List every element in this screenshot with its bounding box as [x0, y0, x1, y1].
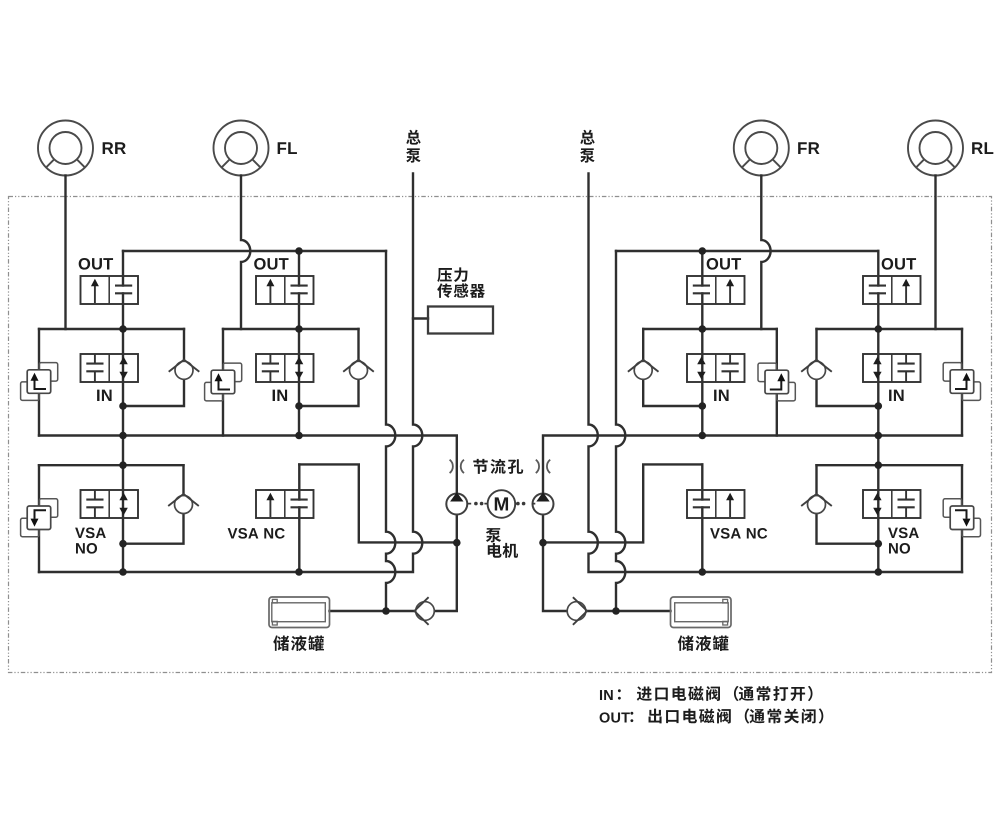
wire brake line RL x878: [877, 329, 879, 572]
junction node: [875, 568, 883, 576]
check valve FR circuit: [628, 360, 659, 380]
junction node: [875, 432, 883, 440]
pressure sensor box: [428, 307, 493, 334]
junction node: [295, 325, 303, 333]
check valve RL circuit: [801, 360, 832, 380]
junction node: [875, 461, 883, 469]
relief valve FR circuit: [758, 363, 795, 401]
solenoid valve OUT RR (NC): [81, 276, 139, 304]
label master-cylinder (zong) right: [580, 130, 594, 145]
wire RR relief branch: [38, 329, 40, 436]
label IN RL: [889, 390, 903, 401]
label pump motor (beng): [486, 528, 501, 542]
label OUT RR: [79, 258, 113, 270]
wire OUT rail right: [616, 250, 878, 252]
wire FL wheel to manifold with crossover hop: [241, 176, 250, 330]
junction node: [699, 402, 707, 410]
wire RL OUT valve line: [877, 251, 879, 329]
legend line 2 OUT: [600, 712, 630, 722]
solenoid valve IN RR (NO): [81, 354, 139, 382]
wire brake line RR x123: [122, 329, 124, 572]
wire OUT rail left: [123, 250, 386, 252]
label OUT FL: [254, 258, 288, 270]
solenoid valve OUT FR (NC): [687, 276, 745, 304]
junction node: [295, 402, 303, 410]
check valve VSA right: [801, 494, 832, 514]
junction node: [119, 540, 127, 548]
wire FR check branch: [643, 329, 702, 406]
reservoir left: [269, 597, 330, 628]
junction node: [699, 247, 707, 255]
label VSA NO right: [888, 528, 919, 539]
reservoir right: [671, 597, 732, 628]
wire FR manifold rail: [643, 328, 777, 330]
legend line 1 IN: [600, 690, 613, 700]
solenoid valve IN RL (NO): [863, 354, 921, 382]
wire pressure sensor stub: [413, 317, 428, 319]
wheel FL: [214, 121, 269, 176]
wire FR wheel to manifold with crossover hop: [761, 176, 770, 330]
junction node: [699, 568, 707, 576]
relief valve FL circuit: [205, 363, 242, 401]
wire RL manifold rail: [817, 328, 963, 330]
junction node: [119, 402, 127, 410]
wire FR relief branch: [776, 329, 778, 436]
wire master cylinder line left x413 down to VSA rail: [39, 174, 422, 573]
junction node: [119, 461, 127, 469]
label reservoir left: [273, 635, 324, 651]
solenoid valve OUT FL (NC): [256, 276, 314, 304]
junction node: [539, 539, 547, 547]
wire VSA NC right to pump suction: [543, 464, 702, 542]
relief valve VSA right: [943, 499, 980, 537]
wire VSA NC valve line right: [701, 464, 703, 572]
junction node: [875, 540, 883, 548]
label VSA NC right: [710, 528, 767, 539]
solenoid valve IN FL (NO): [256, 354, 314, 382]
pump right: [533, 492, 554, 514]
wire mid rail left to pump inlet: [39, 436, 457, 494]
check valve reservoir right: [567, 597, 587, 625]
wire RR OUT valve line: [122, 251, 124, 329]
solenoid valve IN FR (NO): [687, 354, 745, 382]
label OUT FR: [707, 258, 741, 270]
wheel RL: [908, 121, 963, 176]
wire pump right outlet to reservoir: [543, 515, 671, 612]
junction node: [119, 432, 127, 440]
wire RL check branch: [817, 329, 879, 406]
wire FR OUT valve line: [701, 251, 703, 329]
junction node: [119, 568, 127, 576]
relief valve RR circuit: [21, 363, 58, 401]
solenoid valve OUT RL (NC): [863, 276, 921, 304]
label IN FL: [273, 390, 287, 401]
wire VSA NO relief branch left: [38, 465, 40, 572]
wire VSA NO rail left: [39, 464, 184, 466]
relief valve VSA left: [21, 499, 58, 537]
wire low-pressure return left x386: [386, 251, 395, 611]
label IN FR: [714, 390, 728, 401]
wire brake line FR x702: [701, 329, 703, 436]
junction node: [453, 539, 461, 547]
orifice left: [450, 460, 464, 473]
wire RL relief branch: [961, 329, 963, 436]
wire RR wheel to manifold: [64, 176, 66, 330]
check valve VSA left: [168, 494, 199, 514]
wire VSA NO rail right: [817, 464, 963, 466]
label master-cylinder (zong) left: [406, 130, 420, 145]
pump-motor shaft dots: [467, 503, 535, 505]
junction node: [295, 432, 303, 440]
pump left: [446, 492, 467, 514]
wire RL wheel to manifold: [934, 176, 936, 330]
junction node: [875, 325, 883, 333]
junction node: [382, 607, 390, 615]
junction node: [612, 607, 620, 615]
dashed border of VSA modulator unit: [9, 197, 992, 673]
wire RR manifold rail: [39, 328, 184, 330]
label IN RR: [97, 390, 111, 401]
wire FL check branch: [299, 329, 359, 406]
junction node: [699, 432, 707, 440]
junction node: [295, 247, 303, 255]
wire FL OUT valve line: [298, 251, 300, 329]
wire master cylinder line right x588 down to VSA rail: [589, 174, 963, 573]
junction node: [875, 402, 883, 410]
wire FL relief branch: [222, 329, 224, 436]
wire brake line FL x299: [298, 329, 300, 436]
relief valve RL circuit: [943, 363, 980, 401]
wire FL manifold rail: [223, 328, 359, 330]
junction node: [119, 325, 127, 333]
label VSA NC left: [228, 528, 285, 539]
label VSA NO left: [75, 528, 106, 539]
junction node: [295, 568, 303, 576]
motor M: [488, 490, 516, 518]
wire VSA NC left to pump suction: [299, 464, 457, 542]
label pressure sensor line1: [437, 267, 467, 282]
label orifice (jie liu kong): [473, 459, 523, 474]
label OUT RL: [882, 258, 916, 270]
wheel RR: [38, 121, 93, 176]
solenoid valve VSA NO left: [81, 490, 139, 518]
label reservoir right: [678, 635, 729, 651]
wire VSA NO check branch left: [123, 465, 184, 544]
wire low-pressure return right x616: [616, 251, 625, 611]
wire pump left outlet to reservoir: [330, 515, 457, 612]
wire VSA NC valve line left: [298, 464, 300, 572]
wire VSA NO relief branch right: [961, 465, 963, 572]
wire mid rail right to pump inlet: [543, 436, 962, 494]
wire RR check branch: [123, 329, 184, 406]
solenoid valve VSA NC left: [256, 490, 314, 518]
junction node: [699, 325, 707, 333]
wire VSA NO check branch right: [817, 465, 879, 544]
check valve reservoir left: [414, 597, 434, 625]
solenoid valve VSA NC right: [687, 490, 745, 518]
check valve RR circuit: [169, 360, 200, 380]
check valve FL circuit: [343, 360, 374, 380]
label pressure sensor line2: [437, 283, 485, 298]
solenoid valve VSA NO right: [863, 490, 921, 518]
orifice right: [536, 460, 550, 473]
wheel FR: [734, 121, 789, 176]
